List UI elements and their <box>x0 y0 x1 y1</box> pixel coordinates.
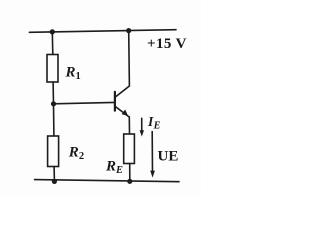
svg-text:R2: R2 <box>68 144 84 162</box>
node D (bottom rail / R2 junction) <box>52 179 57 184</box>
wire top +15V rail <box>29 30 176 33</box>
node C (base divider node) <box>51 101 56 106</box>
wire base node to transistor base <box>54 102 115 103</box>
wire collector to top rail <box>116 31 130 97</box>
wire R2 bottom to bottom rail <box>53 167 55 181</box>
wire RE bottom to bottom rail <box>129 164 131 182</box>
resistor R2 <box>48 136 59 167</box>
svg-text:RE: RE <box>105 159 123 176</box>
wire base node to R2 top <box>53 104 55 136</box>
wire emitter to RE top <box>128 117 130 134</box>
node A (top rail / R1 junction) <box>50 29 55 34</box>
node B (top rail / collector junction) <box>126 28 131 33</box>
current arrow IE <box>140 118 144 136</box>
svg-text:IE: IE <box>147 114 161 131</box>
wire bottom rail <box>35 180 180 182</box>
svg-text:R1: R1 <box>65 64 81 82</box>
wire rail to R1 top <box>51 32 54 55</box>
resistor R1 <box>47 55 58 83</box>
svg-text:+15 V: +15 V <box>147 36 187 52</box>
svg-text:UE: UE <box>158 149 179 165</box>
voltage arrow UE <box>150 132 155 178</box>
wire R1 bottom to base node <box>52 82 54 104</box>
node E (bottom rail / RE junction) <box>127 179 132 184</box>
transistor Q1 <box>115 92 129 117</box>
resistor RE <box>124 134 135 164</box>
